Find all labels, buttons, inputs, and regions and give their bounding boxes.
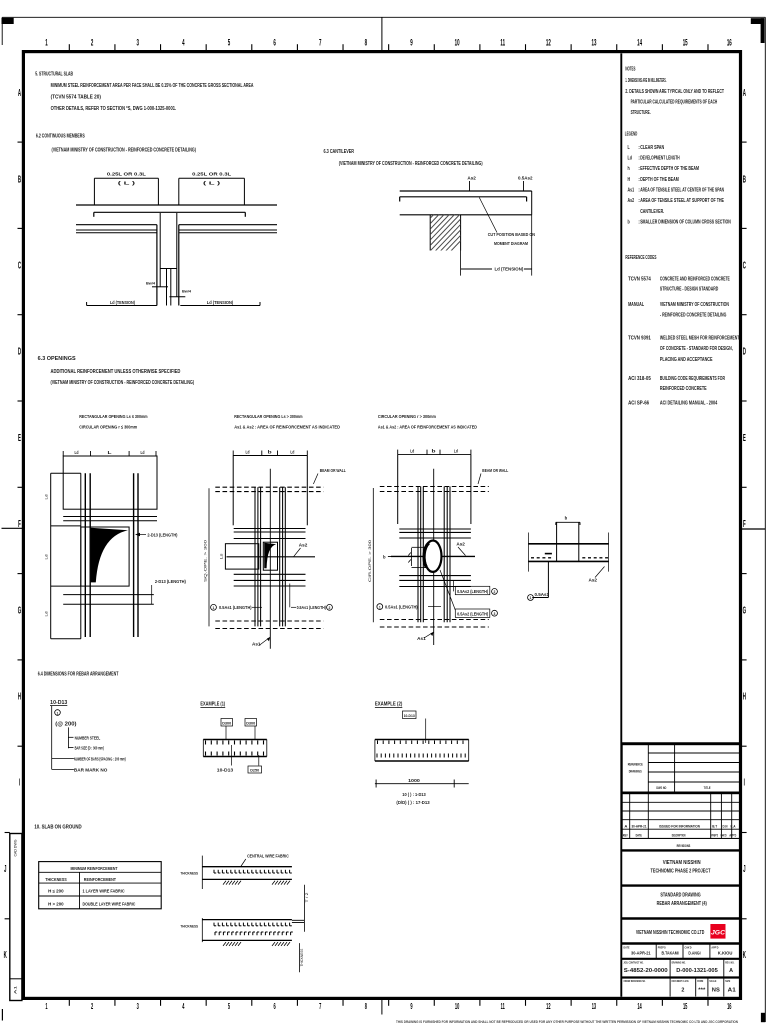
svg-text:DATE: DATE — [636, 832, 642, 837]
svg-text:2: 2 — [329, 606, 331, 610]
svg-text:A: A — [624, 823, 627, 828]
svg-text:13: 13 — [592, 1003, 597, 1012]
svg-text:b: b — [383, 554, 386, 559]
svg-text:2: 2 — [91, 1003, 93, 1012]
svg-text:K: K — [4, 949, 7, 961]
svg-text:2: 2 — [494, 590, 496, 594]
svg-text:D.N: D.N — [723, 823, 728, 828]
svg-text:DRAWINGS: DRAWINGS — [629, 770, 642, 774]
svg-text:10: 10 — [455, 1003, 460, 1012]
svg-text:SMALLER DIMENSION OF COLUMN CR: SMALLER DIMENSION OF COLUMN CROSS SECTIO… — [640, 219, 731, 225]
svg-text:6.2 CONTINUOUS MEMBERS: 6.2 CONTINUOUS MEMBERS — [36, 134, 85, 140]
svg-text:Ld: Ld — [290, 450, 294, 455]
svg-text:D-000-1321-005: D-000-1321-005 — [676, 968, 718, 974]
svg-text:APP'D: APP'D — [711, 945, 718, 949]
svg-text:THICKNESS: THICKNESS — [180, 924, 198, 929]
svg-text:PREP'D: PREP'D — [711, 832, 718, 837]
svg-text:Ld (TENSION): Ld (TENSION) — [207, 300, 234, 306]
svg-text:10. SLAB ON GROUND: 10. SLAB ON GROUND — [34, 825, 82, 831]
svg-text:OWNER REFERENCE NO.: OWNER REFERENCE NO. — [624, 979, 646, 983]
svg-text:Ld: Ld — [410, 449, 414, 454]
svg-text:4: 4 — [182, 37, 184, 48]
svg-text:0.5As2: 0.5As2 — [518, 176, 533, 181]
svg-text:L: L — [628, 145, 630, 151]
svg-text:9: 9 — [410, 37, 412, 48]
svg-text:BAR SIZE (D : 300 mm): BAR SIZE (D : 300 mm) — [75, 746, 104, 751]
svg-text:CAD DWG: CAD DWG — [14, 839, 18, 856]
svg-text:15: 15 — [683, 1003, 688, 1012]
svg-text:A1: A1 — [728, 988, 736, 994]
svg-text:2. DETAILS SHOWN ARE TYPICAL: 2. DETAILS SHOWN ARE TYPICAL ONLY AND TO… — [625, 89, 724, 95]
svg-text:16: 16 — [727, 1003, 732, 1012]
svg-text:- REINFORCED CONCRETE DETAILIN: - REINFORCED CONCRETE DETAILING — [660, 313, 727, 319]
svg-text:CANTILEVER.: CANTILEVER. — [640, 209, 664, 215]
svg-text:NOTES: NOTES — [625, 66, 635, 72]
svg-text:10-D13: 10-D13 — [217, 768, 234, 773]
svg-text:D250: D250 — [250, 769, 259, 773]
svg-text:THICKNESS: THICKNESS — [180, 870, 198, 875]
svg-text:11: 11 — [501, 1003, 505, 1012]
svg-text:As2: As2 — [628, 198, 635, 204]
svg-text:JGC: JGC — [711, 929, 725, 936]
svg-text:( L ): ( L ) — [203, 181, 221, 187]
svg-text:H: H — [18, 690, 21, 702]
svg-text:BEAM OR WALL: BEAM OR WALL — [482, 468, 508, 473]
svg-text:REV: REV — [623, 832, 628, 837]
svg-text:0.25L OR 0.3L: 0.25L OR 0.3L — [107, 172, 146, 178]
svg-text:FORM: FORM — [697, 979, 703, 983]
svg-text:CHK'D: CHK'D — [685, 945, 692, 949]
svg-text:REV. NO.: REV. NO. — [725, 960, 734, 964]
svg-text:ACI DETAILING MANUAL - 2004: ACI DETAILING MANUAL - 2004 — [660, 401, 718, 407]
svg-text:K.A: K.A — [731, 823, 736, 828]
svg-text:14: 14 — [637, 37, 642, 48]
svg-text:(VIETNAM MINISTRY OF CONSTRUCT: (VIETNAM MINISTRY OF CONSTRUCTION - REIN… — [52, 147, 197, 153]
svg-text:WELDED STEEL MESH FOR REINFORC: WELDED STEEL MESH FOR REINFORCEMENT — [660, 336, 740, 342]
svg-text:D300: D300 — [222, 721, 231, 725]
svg-text:10: 10 — [455, 37, 460, 48]
svg-text:VIETNAM MINISTRY OF CONSTRUCTI: VIETNAM MINISTRY OF CONSTRUCTION — [660, 302, 729, 308]
svg-text:BEAM OR WALL: BEAM OR WALL — [320, 468, 346, 473]
svg-text:As1: As1 — [628, 188, 635, 194]
svg-text:ADDITIONAL REINFORCEMENT UNLES: ADDITIONAL REINFORCEMENT UNLESS OTHERWIS… — [51, 369, 181, 375]
svg-text:BUILDING CODE REQUIREMENTS FOR: BUILDING CODE REQUIREMENTS FOR — [660, 376, 725, 382]
svg-text:CONCRETE AND REINFORCED CONCRE: CONCRETE AND REINFORCED CONCRETE — [660, 276, 730, 282]
svg-text:G: G — [18, 604, 21, 616]
svg-text:B.T: B.T — [712, 823, 717, 828]
svg-text:B: B — [743, 173, 746, 185]
svg-text:A: A — [18, 87, 21, 99]
svg-text:0.25L OR 0.3L: 0.25L OR 0.3L — [192, 172, 231, 178]
svg-text:TITLE: TITLE — [704, 786, 711, 790]
svg-text:1. DIMENSIONS ARE IN MILLIMET: 1. DIMENSIONS ARE IN MILLIMETERS. — [625, 78, 666, 84]
svg-text:0.5As1 (LENGTH): 0.5As1 (LENGTH) — [219, 605, 252, 610]
svg-text:I: I — [744, 777, 745, 789]
svg-text:PARTICULAR CALCULATED REQUIREM: PARTICULAR CALCULATED REQUIREMENTS OF EA… — [631, 100, 718, 106]
svg-text:1: 1 — [530, 596, 532, 600]
svg-text:b: b — [628, 219, 630, 225]
svg-text:8: 8 — [365, 37, 367, 48]
svg-text:8: 8 — [365, 1003, 367, 1012]
svg-text:C: C — [743, 259, 746, 271]
svg-text:SCALE: SCALE — [709, 979, 716, 983]
svg-text:Bw/4: Bw/4 — [182, 290, 192, 294]
svg-text:STRUCTURE - DESIGN STANDARD: STRUCTURE - DESIGN STANDARD — [660, 286, 719, 292]
svg-text:13: 13 — [591, 37, 596, 48]
svg-text:0.5As2 (LENGTH): 0.5As2 (LENGTH) — [457, 589, 488, 594]
svg-text:NUMBER OF BARS (SPACING : 200: NUMBER OF BARS (SPACING : 200 mm) — [74, 756, 126, 761]
svg-text:T / 2: T / 2 — [305, 893, 309, 903]
svg-text:J: J — [4, 863, 6, 875]
svg-text:DOCUMENT CLASS: DOCUMENT CLASS — [672, 979, 689, 983]
svg-text:0.5As2 (LENGTH): 0.5As2 (LENGTH) — [457, 612, 488, 617]
svg-text:EFFECTIVE DEPTH OF THE BEAM: EFFECTIVE DEPTH OF THE BEAM — [640, 166, 699, 172]
svg-text:DATE: DATE — [624, 945, 630, 949]
svg-text:0.5As1 (LENGTH): 0.5As1 (LENGTH) — [297, 605, 327, 610]
svg-text:H: H — [743, 690, 746, 702]
svg-text:4: 4 — [182, 1003, 184, 1012]
svg-text:VIETNAM NISSHIN: VIETNAM NISSHIN — [663, 860, 701, 866]
svg-text:CIR.OPE. > 300: CIR.OPE. > 300 — [367, 539, 372, 582]
svg-text:15: 15 — [683, 37, 688, 48]
svg-text:CIRCULAR OPENING r > 300mm: CIRCULAR OPENING r > 300mm — [378, 414, 436, 420]
svg-text:b: b — [565, 516, 568, 521]
svg-text:A: A — [743, 87, 746, 99]
svg-text:1: 1 — [57, 711, 59, 715]
svg-text:(VIETNAM MINISTRY OF CONSTRUCT: (VIETNAM MINISTRY OF CONSTRUCTION - REIN… — [339, 161, 483, 167]
svg-text:12: 12 — [546, 37, 551, 48]
svg-text:I: I — [19, 777, 20, 789]
svg-text:3: 3 — [494, 612, 496, 616]
svg-text:APP'D: APP'D — [729, 832, 736, 837]
svg-text:7: 7 — [319, 1003, 321, 1012]
svg-text:As1 & As2 : AREA OF REINFORCEM: As1 & As2 : AREA OF REINFORCEMENT AS IND… — [234, 424, 340, 429]
svg-text:D: D — [743, 346, 746, 358]
svg-text:(@ 200): (@ 200) — [55, 722, 77, 728]
svg-text:G: G — [743, 604, 746, 616]
svg-text:5: 5 — [228, 37, 230, 48]
svg-text:***: *** — [698, 988, 706, 994]
svg-text:MINIMUM STEEL REINFORCEMENT AR: MINIMUM STEEL REINFORCEMENT AREA PER FAC… — [51, 83, 254, 89]
svg-text:RECTANGULAR OPENING Ls ≤ 300m: RECTANGULAR OPENING Ls ≤ 300mm — [79, 414, 147, 420]
svg-text:As2: As2 — [299, 543, 308, 548]
svg-text:VIETNAM NISSHIN TECHNOMIC CO.L: VIETNAM NISSHIN TECHNOMIC CO.LTD — [636, 930, 705, 936]
svg-text:b: b — [432, 449, 437, 454]
svg-text:DESCRIPTION: DESCRIPTION — [672, 832, 686, 837]
svg-text:Bw/4: Bw/4 — [146, 282, 156, 286]
svg-text:A1: A1 — [14, 986, 18, 994]
svg-text:As1: As1 — [252, 642, 261, 647]
svg-text:0.5As1 (LENGTH): 0.5As1 (LENGTH) — [385, 605, 418, 610]
svg-text:DRAWING NO.: DRAWING NO. — [672, 960, 686, 964]
svg-text:6.4 DIMENSIONS FOR REBAR ARRA: 6.4 DIMENSIONS FOR REBAR ARRANGEMENT — [38, 672, 119, 678]
svg-text:L: L — [108, 450, 113, 455]
svg-text:RECTANGULAR OPENING Ls > 300m: RECTANGULAR OPENING Ls > 300mm — [234, 414, 302, 420]
svg-text:BAR MARK NO: BAR MARK NO — [74, 767, 108, 772]
svg-text:E: E — [18, 432, 21, 444]
svg-text:6.3 OPENINGS: 6.3 OPENINGS — [38, 356, 76, 362]
svg-text:K: K — [743, 949, 746, 961]
svg-text:DEVELOPMENT LENGTH: DEVELOPMENT LENGTH — [640, 155, 680, 161]
svg-text:3: 3 — [137, 37, 139, 48]
svg-text:THIS DRAWING IS FURNISHED FOR: THIS DRAWING IS FURNISHED FOR INFORMATIO… — [396, 1020, 739, 1024]
svg-text:2-D13 (LENGTH): 2-D13 (LENGTH) — [147, 532, 177, 537]
svg-text:OTHER DETAILS, REFER TO SECTIO: OTHER DETAILS, REFER TO SECTION *S, DWG … — [51, 106, 177, 112]
svg-text:ISSUED FOR INFORMATION: ISSUED FOR INFORMATION — [659, 823, 700, 828]
svg-text:12: 12 — [546, 1003, 551, 1012]
svg-text:K.KIOU: K.KIOU — [718, 951, 733, 956]
svg-text:(D/D) ( ) : 17-D13: (D/D) ( ) : 17-D13 — [396, 800, 430, 805]
svg-text:Ld: Ld — [45, 612, 49, 617]
svg-text:5. STRUCTURAL SLAB: 5. STRUCTURAL SLAB — [35, 71, 73, 77]
svg-text:(TCVN 5574 TABLE 20): (TCVN 5574 TABLE 20) — [51, 94, 102, 100]
svg-text:Ld (TENSION): Ld (TENSION) — [495, 266, 524, 272]
svg-text:1 LAYER WIRE FABRIC: 1 LAYER WIRE FABRIC — [83, 889, 126, 894]
svg-text:9: 9 — [410, 1003, 412, 1012]
svg-text:2-D13 (LENGTH): 2-D13 (LENGTH) — [155, 579, 186, 584]
svg-text:As1: As1 — [417, 636, 426, 641]
svg-text:EXAMPLE (2): EXAMPLE (2) — [375, 702, 403, 708]
svg-text:1: 1 — [45, 1003, 47, 1012]
svg-text:D.ANGI: D.ANGI — [688, 951, 700, 956]
svg-text:b: b — [268, 450, 273, 455]
svg-text:MOMENT DIAGRAM: MOMENT DIAGRAM — [494, 241, 528, 247]
svg-text:OF CONCRETE - STANDARD FOR DES: OF CONCRETE - STANDARD FOR DESIGN, — [660, 346, 733, 352]
svg-text:THICKNESS: THICKNESS — [300, 948, 304, 966]
svg-text:AREA OF TENSILE STEEL AT CENTE: AREA OF TENSILE STEEL AT CENTER OF THE S… — [640, 188, 724, 194]
svg-text:NUMBER STEEL: NUMBER STEEL — [75, 735, 101, 740]
svg-text:As1 & As2 : AREA OF REINFORCEM: As1 & As2 : AREA OF REINFORCEMENT AS IND… — [378, 424, 478, 429]
svg-text:ACI SP-66: ACI SP-66 — [628, 401, 649, 407]
svg-text:REVISIONS: REVISIONS — [677, 843, 691, 848]
svg-text:2: 2 — [91, 37, 93, 48]
svg-text:NS: NS — [712, 988, 720, 994]
svg-text:TCVN 5574: TCVN 5574 — [628, 276, 651, 282]
svg-text:REFERENCE CODES: REFERENCE CODES — [625, 255, 656, 261]
svg-text:10-D13: 10-D13 — [50, 700, 67, 706]
svg-text:30-APR-21: 30-APR-21 — [632, 823, 648, 828]
svg-text:J: J — [743, 863, 745, 875]
svg-text:A: A — [729, 968, 733, 974]
svg-text:16: 16 — [727, 37, 732, 48]
svg-text:Ld: Ld — [141, 450, 145, 455]
svg-text:10-D13: 10-D13 — [404, 714, 415, 718]
svg-text:D300: D300 — [246, 721, 255, 725]
svg-text:7: 7 — [319, 37, 321, 48]
svg-text:D: D — [18, 346, 21, 358]
svg-text:1: 1 — [45, 37, 47, 48]
svg-text:(VIETNAM MINISTRY OF CONSTRUCT: (VIETNAM MINISTRY OF CONSTRUCTION - REIN… — [51, 380, 195, 386]
svg-text:S-4852-20-0000: S-4852-20-0000 — [624, 968, 668, 974]
svg-text:Ld: Ld — [75, 450, 79, 455]
svg-text:Ld: Ld — [45, 555, 49, 560]
svg-text:STANDARD DRAWING: STANDARD DRAWING — [660, 893, 700, 899]
svg-text:THICKNESS: THICKNESS — [45, 877, 67, 882]
svg-text:H > 200: H > 200 — [48, 901, 64, 906]
svg-text:10 ( ) : 1-D13: 10 ( ) : 1-D13 — [402, 792, 426, 797]
svg-text:As2: As2 — [589, 578, 598, 583]
svg-text:14: 14 — [637, 1003, 642, 1012]
svg-text:LEGEND: LEGEND — [625, 132, 638, 138]
svg-text:EXAMPLE (1): EXAMPLE (1) — [200, 702, 225, 708]
svg-text:TECHNOMIC PHASE 2 PROJECT: TECHNOMIC PHASE 2 PROJECT — [651, 869, 712, 875]
svg-text:E: E — [743, 432, 746, 444]
svg-text:SIZE: SIZE — [725, 979, 730, 983]
svg-text:REINFORCED CONCRETE: REINFORCED CONCRETE — [660, 386, 707, 392]
svg-text:B: B — [18, 173, 21, 185]
svg-text:11: 11 — [500, 37, 505, 48]
svg-text:SQ.OPE. > 300: SQ.OPE. > 300 — [203, 539, 208, 582]
svg-text:3: 3 — [137, 1003, 139, 1012]
svg-text:CENTRAL WIRE FABRIC: CENTRAL WIRE FABRIC — [247, 854, 289, 859]
svg-text:CHK'D: CHK'D — [720, 832, 726, 837]
svg-text:MANUAL: MANUAL — [628, 302, 644, 308]
svg-text:Ld: Ld — [454, 449, 458, 454]
svg-text:C: C — [18, 259, 21, 271]
svg-text:PREP'D: PREP'D — [658, 945, 666, 949]
svg-text:B.TAKAMI: B.TAKAMI — [662, 951, 679, 956]
svg-text:30-APR-21: 30-APR-21 — [631, 951, 651, 956]
svg-text:MINIMUM REINFORCEMENT: MINIMUM REINFORCEMENT — [71, 866, 118, 871]
svg-text:6.3 CANTILEVER: 6.3 CANTILEVER — [324, 149, 355, 155]
svg-text:DOUBLE LAYER WIRE FABRIC: DOUBLE LAYER WIRE FABRIC — [83, 901, 137, 906]
svg-text:DEPTH OF THE BEAM: DEPTH OF THE BEAM — [640, 177, 679, 183]
svg-text:h: h — [628, 166, 630, 172]
svg-text:STRUCTURE.: STRUCTURE. — [631, 110, 651, 116]
svg-text:H: H — [628, 177, 631, 183]
svg-text:Ls: Ls — [220, 553, 224, 559]
svg-text:Ld: Ld — [246, 450, 250, 455]
svg-text:TCVN 9391: TCVN 9391 — [628, 336, 651, 342]
svg-text:H ≤ 200: H ≤ 200 — [48, 889, 64, 894]
svg-text:1: 1 — [379, 605, 381, 609]
svg-text:0.5As1: 0.5As1 — [535, 592, 550, 597]
svg-text:CUT POSITION BASED ON: CUT POSITION BASED ON — [488, 232, 536, 238]
svg-text:REFERENCE: REFERENCE — [628, 763, 643, 767]
svg-text:2: 2 — [681, 988, 684, 994]
svg-text:As2: As2 — [456, 541, 465, 546]
svg-text:ACI 318-05: ACI 318-05 — [628, 376, 651, 382]
svg-text:1: 1 — [213, 606, 215, 610]
svg-text:6: 6 — [274, 1003, 276, 1012]
svg-text:F: F — [743, 518, 746, 530]
svg-text:AREA OF TENSILE STEEL AT SUPPO: AREA OF TENSILE STEEL AT SUPPORT OF THE — [640, 198, 724, 204]
svg-text:( L ): ( L ) — [118, 181, 136, 187]
svg-text:5: 5 — [228, 1003, 230, 1012]
svg-text:JOB. CONTRACT NO.: JOB. CONTRACT NO. — [624, 960, 644, 964]
svg-text:PLACING AND ACCEPTANCE: PLACING AND ACCEPTANCE — [660, 357, 713, 363]
svg-text:1000: 1000 — [408, 778, 421, 783]
svg-text:CIRCULAR OPENING r ≤ 300mm: CIRCULAR OPENING r ≤ 300mm — [79, 424, 137, 430]
svg-text:DWG NO: DWG NO — [656, 786, 666, 790]
svg-text:REINFORCEMENT: REINFORCEMENT — [84, 877, 116, 882]
svg-text:REBAR ARRANGEMENT (4): REBAR ARRANGEMENT (4) — [657, 901, 707, 907]
svg-text:Ld: Ld — [628, 155, 632, 161]
svg-text:Ld: Ld — [45, 495, 49, 500]
svg-text:As2: As2 — [467, 176, 476, 181]
svg-text:CLEAR SPAN: CLEAR SPAN — [640, 145, 664, 151]
svg-text:Ld (TENSION): Ld (TENSION) — [110, 300, 135, 306]
svg-text:6: 6 — [273, 37, 275, 48]
